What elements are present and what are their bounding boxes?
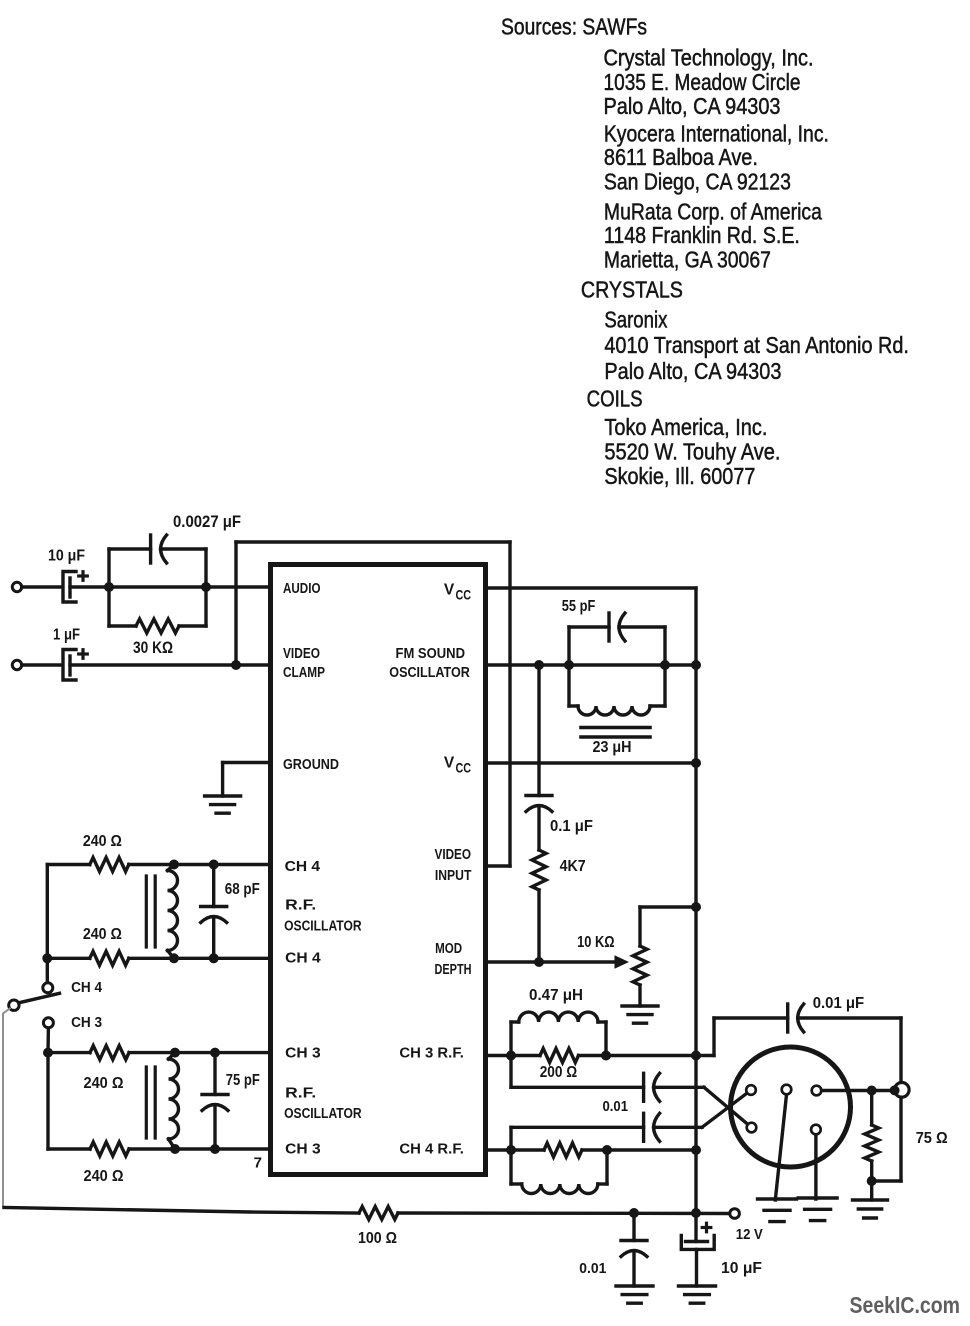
svg-text:CH 4 R.F.: CH 4 R.F.: [399, 1142, 464, 1158]
svg-text:MOD: MOD: [435, 941, 462, 957]
svg-text:CC: CC: [456, 588, 472, 603]
svg-text:CC: CC: [456, 761, 472, 776]
svg-text:CH 4: CH 4: [71, 980, 102, 996]
svg-text:INPUT: INPUT: [435, 868, 472, 884]
svg-text:68 pF: 68 pF: [225, 881, 260, 898]
svg-text:100 Ω: 100 Ω: [358, 1230, 397, 1247]
svg-text:OSCILLATOR: OSCILLATOR: [284, 919, 362, 935]
svg-text:240 Ω: 240 Ω: [83, 833, 122, 850]
svg-text:0.0027 μF: 0.0027 μF: [173, 513, 241, 531]
svg-text:CH 3: CH 3: [285, 1142, 321, 1158]
svg-text:VIDEO: VIDEO: [435, 847, 472, 863]
svg-text:MuRata Corp. of America: MuRata Corp. of America: [604, 199, 822, 225]
svg-text:200 Ω: 200 Ω: [540, 1064, 578, 1081]
svg-text:55 pF: 55 pF: [562, 598, 596, 615]
svg-text:1 μF: 1 μF: [53, 627, 80, 644]
svg-text:VIDEO: VIDEO: [283, 646, 320, 662]
svg-text:1148 Franklin Rd. S.E.: 1148 Franklin Rd. S.E.: [604, 222, 800, 248]
svg-text:1035 E. Meadow Circle: 1035 E. Meadow Circle: [604, 69, 801, 95]
svg-text:240 Ω: 240 Ω: [84, 1168, 124, 1185]
svg-text:8611 Balboa Ave.: 8611 Balboa Ave.: [604, 144, 758, 170]
svg-text:R.F.: R.F.: [285, 1085, 316, 1101]
svg-text:CLAMP: CLAMP: [283, 665, 325, 681]
svg-text:0.47 μH: 0.47 μH: [529, 987, 583, 1004]
svg-text:Crystal Technology, Inc.: Crystal Technology, Inc.: [604, 44, 814, 70]
svg-text:AUDIO: AUDIO: [283, 581, 321, 597]
svg-text:4K7: 4K7: [560, 858, 586, 875]
svg-text:0.01: 0.01: [579, 1260, 606, 1277]
svg-text:30 KΩ: 30 KΩ: [133, 639, 173, 657]
svg-text:75 pF: 75 pF: [226, 1072, 260, 1089]
svg-text:CH 3 R.F.: CH 3 R.F.: [399, 1046, 464, 1062]
svg-text:4010 Transport at San Antonio: 4010 Transport at San Antonio Rd.: [604, 332, 909, 358]
svg-text:Marietta, GA 30067: Marietta, GA 30067: [604, 247, 771, 273]
svg-text:0.01: 0.01: [603, 1099, 629, 1115]
svg-text:CRYSTALS: CRYSTALS: [581, 276, 683, 302]
svg-text:10 KΩ: 10 KΩ: [577, 934, 615, 951]
svg-text:FM SOUND: FM SOUND: [396, 646, 466, 662]
svg-text:CH 4: CH 4: [285, 951, 321, 967]
svg-text:V: V: [444, 582, 455, 599]
svg-text:Skokie, Ill. 60077: Skokie, Ill. 60077: [604, 463, 755, 489]
svg-text:Palo Alto, CA 94303: Palo Alto, CA 94303: [604, 93, 781, 119]
svg-text:San Diego, CA 92123: San Diego, CA 92123: [604, 169, 791, 195]
svg-text:10 μF: 10 μF: [721, 1260, 762, 1277]
svg-text:CH 4: CH 4: [285, 859, 321, 875]
svg-text:Saronix: Saronix: [604, 307, 667, 333]
svg-text:Sources: SAWFs: Sources: SAWFs: [501, 13, 647, 39]
svg-text:240 Ω: 240 Ω: [83, 926, 122, 943]
svg-text:OSCILLATOR: OSCILLATOR: [284, 1106, 362, 1122]
svg-text:12 V: 12 V: [736, 1226, 763, 1243]
svg-text:5520 W. Touhy Ave.: 5520 W. Touhy Ave.: [604, 439, 780, 465]
svg-text:Kyocera International, Inc.: Kyocera International, Inc.: [604, 120, 829, 146]
svg-text:240 Ω: 240 Ω: [84, 1075, 124, 1092]
svg-text:0.1 μF: 0.1 μF: [550, 818, 593, 835]
svg-text:23 μH: 23 μH: [593, 739, 632, 756]
svg-text:CH 3: CH 3: [71, 1015, 102, 1031]
svg-text:7: 7: [254, 1155, 262, 1172]
svg-text:CH 3: CH 3: [285, 1046, 321, 1062]
svg-text:DEPTH: DEPTH: [435, 962, 472, 978]
svg-text:SeekIC.com: SeekIC.com: [850, 1292, 961, 1318]
svg-text:10 μF: 10 μF: [48, 548, 85, 565]
svg-text:V: V: [444, 755, 455, 772]
svg-text:COILS: COILS: [587, 385, 643, 411]
svg-text:0.01 μF: 0.01 μF: [813, 995, 865, 1012]
svg-text:Toko America, Inc.: Toko America, Inc.: [604, 414, 767, 440]
svg-text:75 Ω: 75 Ω: [916, 1130, 948, 1147]
svg-text:R.F.: R.F.: [285, 897, 316, 913]
svg-text:OSCILLATOR: OSCILLATOR: [389, 665, 470, 681]
svg-text:GROUND: GROUND: [283, 757, 339, 773]
svg-text:Palo Alto, CA 94303: Palo Alto, CA 94303: [604, 358, 781, 384]
